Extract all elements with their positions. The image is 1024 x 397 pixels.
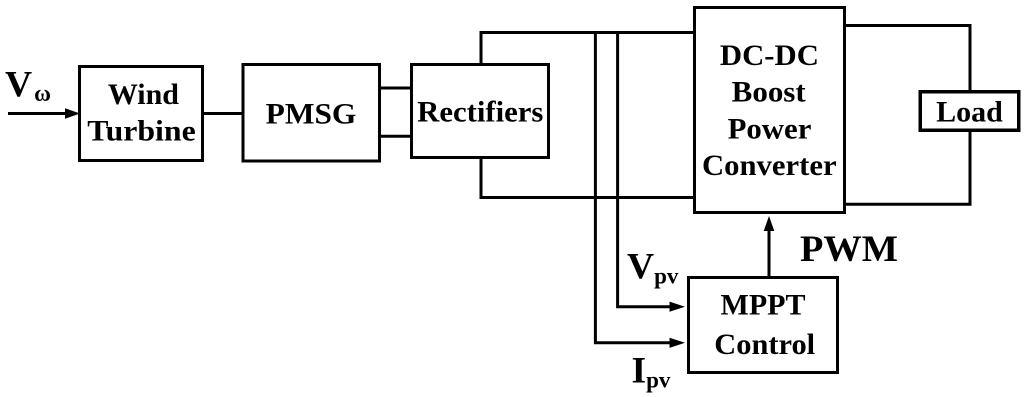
svg-text:Turbine: Turbine — [87, 114, 195, 147]
svg-text:PMSG: PMSG — [266, 97, 357, 130]
svg-text:Converter: Converter — [702, 149, 837, 182]
svg-text:MPPT: MPPT — [721, 289, 806, 322]
svg-text:Power: Power — [728, 113, 812, 146]
svg-text:DC-DC: DC-DC — [720, 39, 819, 72]
svg-text:Wind: Wind — [108, 78, 179, 111]
svg-text:Boost: Boost — [732, 76, 806, 109]
svg-text:PWM: PWM — [800, 229, 898, 270]
svg-text:Load: Load — [936, 95, 1003, 128]
svg-text:Control: Control — [714, 328, 815, 361]
svg-text:Rectifiers: Rectifiers — [417, 95, 543, 128]
